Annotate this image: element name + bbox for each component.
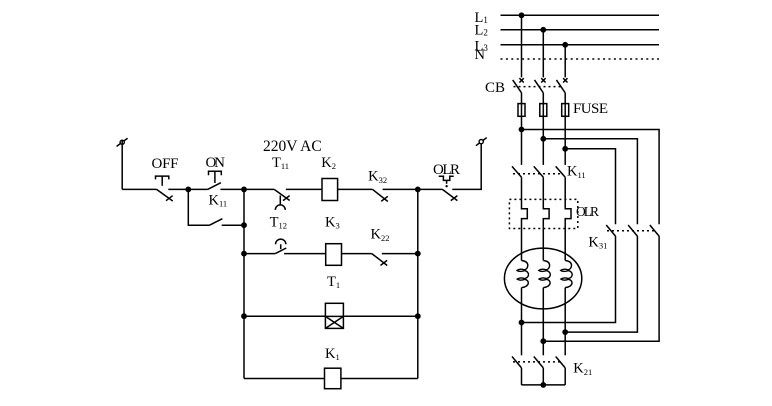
fuse pole 1 [518,104,525,117]
svg-text:T1: T1 [327,274,340,290]
node: star point [540,382,546,388]
breaker CB pole 2 [535,78,546,93]
svg-text:CB: CB [485,80,505,96]
svg-text:N: N [475,47,486,63]
svg-text:T12: T12 [270,214,287,230]
node: pole2 delta feed junction [540,136,546,142]
node: L1 tap [519,12,525,18]
svg-text:K22: K22 [371,227,390,243]
contactor K21 pole 3 [556,357,566,368]
contactor K11 pole 3 [556,166,566,177]
wire: line L2 [501,29,660,31]
wire: pole1 down to K11 [521,130,523,165]
wire: row3 left [244,315,325,317]
node B junction [241,187,247,193]
wire: pole1 return to inner vertical [522,236,616,323]
wire: pole1 drop L1 to CB [521,15,523,77]
svg-text:K11: K11 [567,164,586,180]
node D junction [241,222,247,228]
wire: row2 to T12 [244,253,275,255]
motor winding 1 [517,261,529,288]
svg-text:ON: ON [206,155,226,171]
wire: pole3 drop L3 to CB [564,45,566,78]
contactor K21 pole 1 [512,357,522,368]
node: row3 left junction [241,313,247,319]
wire: K32 to node C [383,188,418,190]
wire: OFF to node A [168,188,188,190]
fuse pole 2 [540,104,547,117]
wire: node C to OLR contact [418,188,443,190]
wire: OLR to right rail [452,139,481,189]
overload relay OLR box (dotted) [509,199,577,228]
node: pole2 delta return junction [540,338,546,344]
coil K1 [325,368,341,389]
wire: row3 right [343,315,417,317]
wire: pole1 CB to fuse [521,93,523,130]
wire: K3 to K22 [342,253,372,255]
contact T11 (NC, time delay) [274,189,290,210]
wire: feed pole1 to outer right vertical [522,130,660,225]
node: row3 right junction [415,313,421,319]
node: row2 left junction [241,251,247,257]
node: pole1 delta feed junction [519,127,525,133]
node: L3 tap [562,42,568,48]
wire: neutral N (dotted) [501,58,660,60]
wire: pole1 motor to star point [521,288,523,356]
svg-text:K2: K2 [321,155,336,171]
wire: node A to ON [188,188,207,190]
K11 linkage (dotted) [513,173,561,175]
wire: K21 pole1 to star bus [521,368,523,385]
wire: left branch vertical [243,189,245,378]
svg-text:OLR: OLR [433,162,460,178]
wire: main rail left to OFF [122,188,156,190]
wire: pole3 return to middle vertical [565,236,637,332]
wire: feed pole3 to inner right vertical [565,149,615,225]
node: pole3 delta return junction [562,329,568,335]
OLR trip symbol [439,176,454,187]
svg-text:OFF: OFF [152,156,179,172]
wire: pole2 motor down [542,288,544,356]
breaker CB pole 3 [556,78,567,93]
contact OLR (NC) [442,189,457,200]
pushbutton ON (NO) [208,171,222,189]
svg-text:T11: T11 [272,155,289,171]
K31 linkage (dotted) [607,230,655,232]
wire: K21 pole3 to star bus [564,368,566,385]
OLR heater pole 1 [522,177,528,260]
K21 linkage (dotted) [513,361,561,363]
wire: K21 pole2 to star bus [542,368,544,385]
node A junction [185,187,191,193]
coil K2 [322,179,338,201]
svg-text:K21: K21 [573,361,592,377]
pushbutton OFF (NC) [156,176,173,201]
motor winding 2 [539,261,551,288]
wire: pole2 CB to fuse [542,93,544,139]
motor winding 3 [561,261,573,288]
wire: pole2 down to K11 [542,139,544,165]
node: L2 tap [540,27,546,33]
svg-text:K31: K31 [588,234,607,250]
wire: K2 to K32 [338,188,373,190]
motor M body [504,248,581,309]
svg-text:220V AC: 220V AC [263,138,322,155]
wire: pole3 CB to fuse [564,93,566,149]
wire: left rail vertical [121,140,123,190]
wire: pole3 down to K11 [564,149,566,165]
node: pole3 delta feed junction [562,146,568,152]
contactor K11 pole 2 [534,166,544,177]
wire: pole2 return to outer vertical [543,236,659,341]
node C junction [415,187,421,193]
svg-text:K11: K11 [209,192,228,208]
wire: K11 aux branch down from node A [188,189,209,225]
svg-text:K1: K1 [325,346,340,362]
wire: T12 to K3 [284,253,326,255]
contact K32 (NC) [373,189,388,201]
wire: ON to node B [220,188,244,190]
svg-text:OLR: OLR [576,204,599,219]
wire: node B to T11 [244,188,274,190]
contact T12 (NO, time delay) [275,239,286,254]
contactor K31 pole 3 [650,225,659,236]
wire: line L1 [501,14,660,16]
OLR heater pole 3 [565,177,571,260]
wire: T11 to K2 coil [286,188,322,190]
wire: pole3 motor down [564,288,566,356]
node: pole1 delta return junction [519,320,525,326]
node: right supply tap (disconnect mark) [476,138,487,146]
contactor K11 pole 1 [512,166,522,177]
wire: K11 to node D [222,224,244,226]
wire: right branch vertical [417,189,419,378]
coil K3 [326,244,342,266]
contactor K31 pole 1 [606,225,615,236]
node: row2 right junction [415,251,421,257]
wire: line L3 [501,44,660,46]
wire: pole2 drop L2 to CB [542,30,544,78]
CB linkage (dotted) [514,86,562,88]
breaker CB pole 1 [513,78,524,93]
svg-text:FUSE: FUSE [573,101,608,117]
coil T1 (timer, box with X) [325,303,343,328]
OLR heater pole 2 [543,177,549,260]
node: left supply tap (disconnect mark) [117,138,128,146]
contactor K21 pole 2 [534,357,544,368]
wire: star bus [522,384,566,386]
wire: row4 left [244,378,325,380]
wire: feed pole2 to middle right vertical [543,139,637,225]
contact K11 aux (NO) [210,219,223,226]
wire: K22 to right branch [382,253,418,255]
svg-text:K32: K32 [368,169,387,185]
svg-text:K3: K3 [325,214,340,230]
fuse pole 3 [562,104,569,117]
contact K22 (NC) [372,254,387,266]
contactor K31 pole 2 [628,225,637,236]
wire: row4 right [341,378,418,380]
